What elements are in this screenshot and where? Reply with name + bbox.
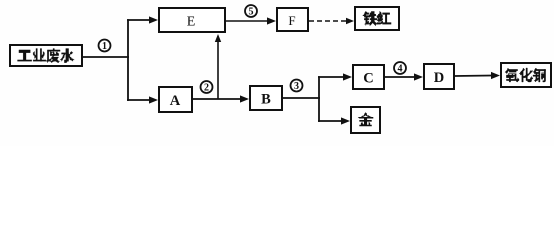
svg-text:2: 2 xyxy=(204,82,209,93)
svg-text:1: 1 xyxy=(102,41,107,52)
wire: 工业废水 output to branch junction xyxy=(82,56,129,58)
node label 3 (circled) xyxy=(291,80,303,92)
wire: F to 铁红 dashed arrow xyxy=(309,18,354,24)
box C xyxy=(353,65,384,89)
wire: vertical from A-B line up into E bottom xyxy=(215,34,221,99)
wire: branch to C with arrow xyxy=(318,73,352,80)
wire: main branch vertical (splits to E and A) xyxy=(127,19,129,101)
box: 工业废水 (industrial wastewater) xyxy=(10,45,82,66)
wire: branch to 金 with arrow xyxy=(318,117,350,124)
box E xyxy=(159,8,225,32)
wire: C to D with arrow, labelled 4 xyxy=(385,73,423,80)
svg-text:4: 4 xyxy=(398,63,403,74)
svg-text:F: F xyxy=(288,13,295,28)
wire: C/金 branch vertical xyxy=(318,76,320,122)
box B xyxy=(250,86,282,110)
node label 4 (circled) xyxy=(394,62,406,74)
wire: branch to A with arrow xyxy=(127,96,158,103)
wire: D to 氧化铜 with arrow xyxy=(455,72,500,79)
svg-text:5: 5 xyxy=(249,6,254,17)
box: 氧化铜 (copper oxide) xyxy=(501,63,551,87)
wire: A to B with arrow, labelled 2 xyxy=(193,95,249,102)
box A xyxy=(159,87,192,112)
wire: E to F with arrow, labelled 5 xyxy=(226,17,276,24)
svg-text:C: C xyxy=(363,71,373,87)
svg-text:B: B xyxy=(261,92,271,108)
node label 5 (circled) xyxy=(245,5,257,17)
node label 2 (circled) xyxy=(201,81,213,93)
svg-text:3: 3 xyxy=(294,81,299,92)
wire: B to branch junction, labelled 3 xyxy=(283,97,320,99)
box D xyxy=(424,64,454,89)
svg-text:D: D xyxy=(434,70,444,86)
box: 铁红 (iron red) xyxy=(355,7,399,30)
svg-text:A: A xyxy=(170,93,181,109)
box: 金 (gold) xyxy=(351,107,380,133)
node label 1 (circled) xyxy=(99,40,111,52)
svg-text:E: E xyxy=(187,15,196,30)
wire: branch to E with arrow xyxy=(127,16,158,23)
box F xyxy=(277,8,308,31)
